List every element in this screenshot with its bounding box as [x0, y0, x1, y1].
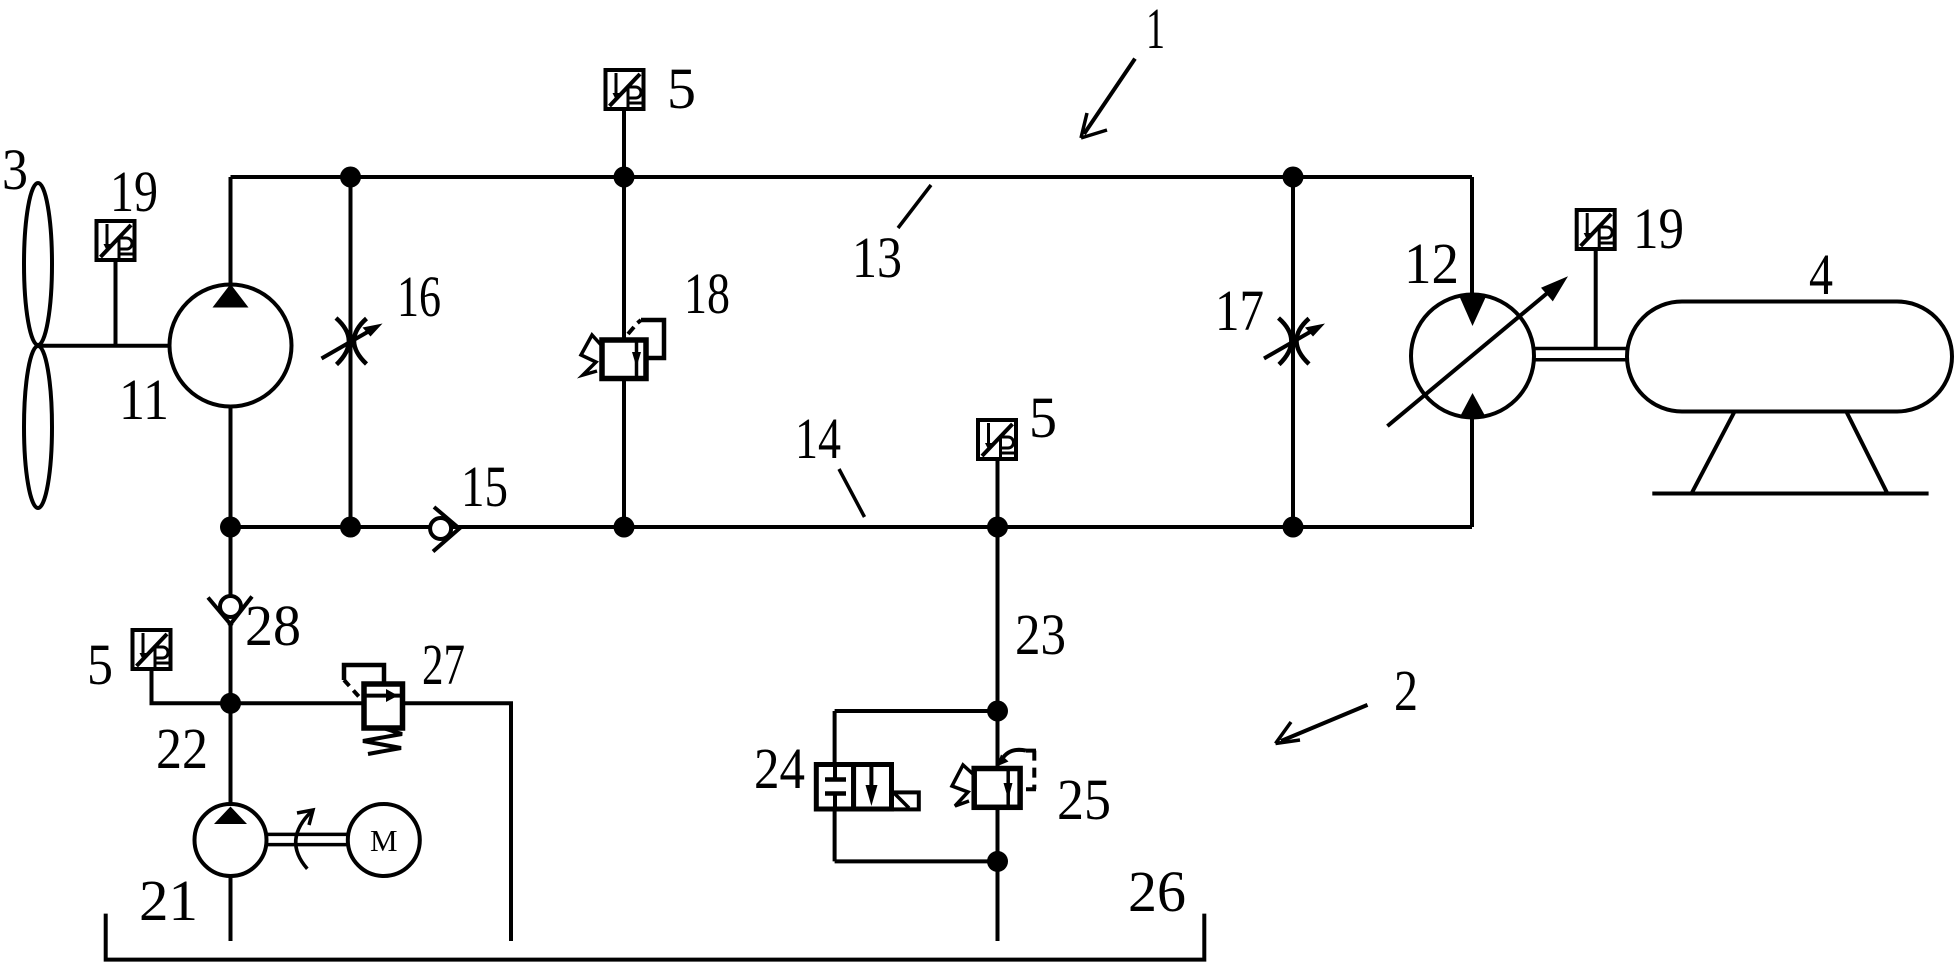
generator 4: [1627, 302, 1952, 494]
wire: valve 18 branch upper segment: [622, 177, 626, 340]
valve 24 flow arrow in right cell: [869, 765, 873, 787]
node: junction bottom line / line 23: [987, 517, 1008, 538]
wire: valve 24 upper vertical: [833, 711, 837, 765]
svg-text:1: 1: [1146, 0, 1165, 61]
wire: line 23 upper segment: [996, 527, 1000, 769]
wire: sensor 5 left drop and across to node 22: [152, 669, 231, 703]
wire: sensor 5 top to top line: [622, 109, 626, 177]
wire: valve 24 bottom horizontal to node: [835, 859, 998, 863]
svg-text:19: 19: [1633, 196, 1684, 261]
svg-text:12: 12: [1404, 231, 1459, 296]
relief valve 18: [581, 320, 664, 379]
node: junction top line / throttle 16 branch: [340, 167, 361, 188]
pressure sensor 5 middle: [978, 420, 1016, 459]
wire: sensor 19 right drop to motor shaft: [1594, 249, 1598, 348]
svg-text:25: 25: [1057, 767, 1111, 832]
wire: node 22 to valve 27: [231, 701, 365, 705]
svg-text:21: 21: [139, 868, 198, 933]
valve 25 spring: [952, 765, 974, 806]
pointer arrow for label 2: [1276, 705, 1368, 744]
propeller 3 (wind turbine blades): [24, 183, 52, 508]
wire: line 23 lower segment to tank: [996, 807, 1000, 941]
wire: valve 24 lower vertical: [833, 809, 837, 862]
svg-text:2: 2: [1394, 658, 1418, 723]
svg-text:13: 13: [852, 225, 902, 290]
wire: pump 11 bottom to bottom line: [229, 407, 233, 528]
svg-text:26: 26: [1128, 859, 1186, 924]
valve 24 solenoid actuator box: [892, 792, 919, 809]
wire: propeller shaft to pump 11: [38, 344, 170, 348]
svg-text:11: 11: [119, 367, 169, 432]
wire: pump 11 top to top line: [229, 177, 233, 285]
speed sensor 19 left: [97, 221, 135, 260]
motor 12 (variable displacement hydraulic motor): [1387, 276, 1568, 426]
wire: left column from bottom line to check valve 28: [229, 527, 233, 598]
pump 21 (auxiliary pump): [195, 804, 267, 876]
svg-text:19: 19: [110, 159, 158, 224]
rotation arrow on pump 21 shaft: [296, 810, 313, 869]
generator 4 stand legs: [1692, 412, 1735, 494]
wire: bottom main line 14: [231, 525, 1473, 529]
tank 26 reservoir outline: [106, 914, 1205, 960]
electric motor M: [348, 804, 420, 876]
generator 4 base line: [1652, 492, 1928, 496]
pressure sensor 5 left: [133, 630, 171, 669]
pointer line for label 14: [839, 469, 865, 517]
svg-text:23: 23: [1015, 602, 1066, 667]
wire: valve 18 branch lower segment: [622, 378, 626, 527]
valve 24 blocked-port marks in left cell: [833, 765, 837, 778]
node: junction bottom line / throttle 17 branch: [1283, 517, 1304, 538]
relief valve 25: [952, 750, 1036, 807]
speed sensor 19 right: [1577, 210, 1615, 249]
throttle valve 16: [322, 318, 383, 365]
shaft: motor 12 to generator 4 double line: [1531, 349, 1628, 360]
wire: node 22 down to pump 21: [229, 704, 233, 806]
svg-text:22: 22: [156, 716, 208, 781]
node: junction top line / throttle 17 branch: [1283, 167, 1304, 188]
shaft: pump 21 to motor M double line: [265, 834, 349, 844]
svg-text:16: 16: [397, 264, 441, 329]
node 22 junction: [220, 693, 241, 714]
throttle valve 17: [1264, 318, 1325, 365]
svg-text:17: 17: [1215, 278, 1264, 343]
wire: check valve 28 to node 22: [229, 624, 233, 704]
node: junction top line / valve 18 branch: [614, 167, 635, 188]
svg-text:28: 28: [245, 593, 301, 658]
node: junction line 23 / valve 24 branch bottom: [987, 851, 1008, 872]
check valve 28 on left column: [208, 596, 252, 626]
node: junction bottom line / valve 18 branch: [614, 517, 635, 538]
svg-text:5: 5: [87, 632, 113, 697]
wire: valve 27 outlet to right then down to tank: [402, 703, 511, 941]
relief valve 27: [344, 665, 403, 754]
wire: right vertical from top line down to motor 12: [1470, 177, 1474, 296]
node: junction bottom line / throttle 16 branch: [340, 517, 361, 538]
svg-text:5: 5: [667, 56, 696, 121]
node: junction line 23 / valve 24 branch top: [987, 701, 1008, 722]
svg-text:4: 4: [1809, 242, 1833, 307]
svg-text:14: 14: [795, 406, 841, 471]
pressure sensor 5 top: [606, 70, 644, 109]
wire: throttle 17 branch vertical: [1291, 177, 1295, 527]
wire: motor 12 bottom to bottom line: [1470, 418, 1474, 527]
pointer arrow for label 1: [1081, 59, 1135, 138]
solenoid valve 24 (2/2-way): [816, 765, 919, 810]
svg-text:24: 24: [754, 736, 805, 801]
node: junction bottom line / pump 11: [220, 517, 241, 538]
svg-text:18: 18: [684, 261, 730, 326]
svg-text:15: 15: [461, 454, 508, 519]
wire: pump 21 bottom into tank: [229, 876, 233, 941]
svg-text:3: 3: [2, 137, 28, 202]
pump 11 (main hydraulic pump): [170, 284, 292, 407]
pointer line for label 13: [898, 185, 931, 228]
valve 25 pilot dashed line: [1020, 751, 1036, 790]
wire: top main line 13 from pump 11 to right corner: [231, 175, 1473, 179]
check valve 15 on bottom line: [430, 507, 460, 552]
wire: sensor 5 middle drop to bottom line: [996, 459, 1000, 527]
wire: throttle 16 branch vertical: [349, 177, 353, 527]
wire: sensor 19 left drop to shaft: [114, 259, 118, 346]
svg-text:5: 5: [1029, 385, 1057, 450]
svg-text:M: M: [370, 823, 398, 858]
wire: branch to valve 24 top horizontal: [835, 709, 998, 713]
svg-text:27: 27: [422, 632, 465, 697]
